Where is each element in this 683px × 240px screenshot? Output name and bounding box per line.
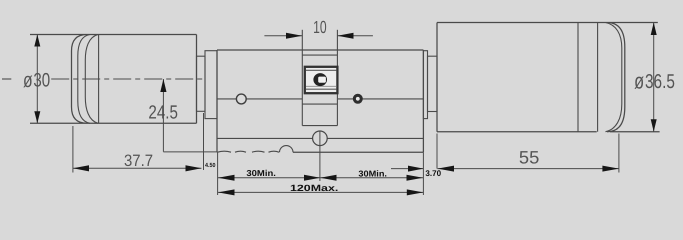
right knob cap boundary line	[597, 23, 599, 132]
ext line body left lower	[217, 152, 219, 195]
left knob face arc A	[78, 35, 90, 124]
dim 120Max left arrow	[218, 189, 235, 195]
svg-text:3.70: 3.70	[425, 169, 441, 178]
dim 24.5 extension line	[163, 151, 217, 153]
dim Ø36.5 top arrow	[651, 23, 657, 36]
right neck ring B	[423, 51, 427, 119]
dim 30Min left line	[218, 177, 423, 179]
dim 30Min center right-point arrow	[304, 175, 320, 181]
dim 10 right tail and arrow	[337, 35, 373, 37]
svg-text:30: 30	[33, 70, 50, 92]
cam ring core rect	[305, 67, 338, 93]
cam center extension line	[319, 131, 321, 182]
dim 30Min left start arrow	[218, 175, 235, 181]
screw dot outer	[353, 94, 363, 104]
dim 3.70 tail line	[391, 168, 423, 170]
dim 55 right arrow	[602, 166, 619, 172]
svg-text:30Min.: 30Min.	[358, 168, 387, 178]
body keyway dashed arc segments	[218, 151, 280, 152]
dim 3.70 arrow	[408, 166, 423, 172]
body plug line right	[338, 98, 423, 100]
cam hub keyhole	[318, 77, 326, 83]
dim 24.5 up arrow	[160, 79, 166, 92]
ext line neck step	[203, 113, 205, 170]
ext line right knob end	[618, 134, 620, 173]
dim 37.7 left arrow	[73, 165, 89, 171]
dim 55 line	[438, 168, 619, 170]
cam ring inner line top	[306, 69, 337, 71]
ext line right knob left edge	[436, 134, 438, 169]
dim 55 left arrow	[438, 166, 455, 172]
ext line knob left	[72, 126, 74, 173]
body plug line left	[217, 98, 302, 100]
cam ring inner line bottom	[306, 88, 337, 90]
cam hub ellipse	[313, 73, 327, 86]
cam bottom circle	[313, 131, 328, 146]
screw dot inner	[356, 97, 360, 101]
svg-text:30Min.: 30Min.	[246, 168, 276, 178]
svg-text:37.7: 37.7	[124, 152, 153, 170]
pin hole circle	[236, 94, 246, 104]
dim 120Max line	[218, 191, 423, 193]
body fin line	[217, 137, 423, 139]
cam side walls	[302, 30, 337, 126]
dim 30Min center left-point arrow	[320, 175, 336, 181]
body outline	[217, 50, 423, 152]
dim Ø30 bottom arrow	[34, 111, 40, 123]
right knob cap inner arc	[606, 23, 622, 132]
right knob outline	[437, 23, 660, 132]
dim 24.5 line	[162, 79, 164, 152]
dim Ø36.5 bottom arrow	[651, 119, 657, 132]
dim 37.7 line	[73, 167, 202, 169]
svg-text:55: 55	[519, 147, 539, 167]
centerline axis	[2, 78, 204, 80]
dim Ø36.5 text	[634, 68, 675, 93]
dim 120Max right arrow	[407, 189, 424, 195]
left neck ring B	[205, 51, 217, 119]
dim 10 left tail and arrow	[264, 35, 302, 37]
dim Ø36.5 line	[653, 23, 655, 132]
svg-text:ø: ø	[23, 69, 33, 92]
dim 30Min right end arrow	[407, 175, 424, 181]
right neck ring A	[428, 56, 438, 111]
svg-text:10: 10	[313, 17, 327, 37]
left knob outline	[30, 35, 197, 124]
body keyway bump arc	[280, 146, 294, 153]
svg-text:120Max.: 120Max.	[290, 183, 338, 193]
cam ring inner faint line	[306, 85, 337, 87]
left knob cap boundary line	[98, 35, 100, 124]
svg-text:ø: ø	[634, 68, 644, 93]
dim Ø30 line	[36, 35, 38, 124]
ext line body right lower	[422, 152, 424, 195]
svg-text:4.50: 4.50	[205, 162, 216, 169]
svg-text:36.5: 36.5	[645, 71, 675, 93]
left neck ring A	[197, 56, 206, 111]
dim Ø30 top arrow	[34, 35, 40, 47]
right knob groove line	[577, 23, 579, 132]
dim Ø30 text	[23, 69, 50, 92]
dim 37.7 right arrow	[186, 165, 202, 171]
left knob face arc B	[85, 35, 98, 124]
